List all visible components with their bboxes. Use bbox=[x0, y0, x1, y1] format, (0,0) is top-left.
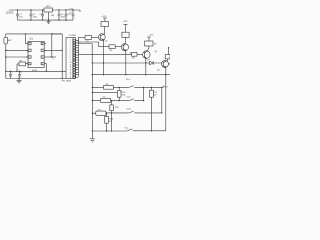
bottom rail of block bbox=[92, 130, 127, 132]
svg-text:16: 16 bbox=[70, 77, 72, 79]
svg-text:9: 9 bbox=[70, 60, 71, 62]
wire emitter Q3 down bbox=[145, 58, 147, 74]
wire IC pin2 to drop bbox=[44, 49, 62, 51]
svg-text:470u: 470u bbox=[33, 16, 37, 18]
ground G3 bbox=[90, 131, 95, 142]
wire to IC pin3 bbox=[6, 56, 28, 58]
svg-text:K1-4: K1-4 bbox=[124, 128, 129, 130]
transistor Q4 bbox=[162, 60, 169, 67]
vertical resistor R13 bbox=[106, 113, 108, 116]
svg-text:2: 2 bbox=[70, 42, 71, 44]
rail mid y63 bbox=[92, 62, 149, 64]
svg-text:R7: R7 bbox=[154, 44, 157, 46]
wire emitter Q1 down bbox=[103, 40, 105, 74]
optocoupler U3 bbox=[92, 100, 100, 102]
junction dots bottom rail bbox=[30, 19, 66, 20]
svg-text:R4: R4 bbox=[110, 50, 113, 52]
capacitor C5 bbox=[65, 10, 68, 20]
node dot terminal 1 bbox=[5, 50, 7, 52]
svg-text:13: 13 bbox=[70, 69, 72, 71]
power +12V arrow right bbox=[162, 86, 164, 88]
svg-text:11: 11 bbox=[70, 64, 72, 66]
wire ground rail bbox=[6, 78, 66, 80]
resistor R5 bbox=[122, 32, 129, 37]
svg-text:12VDC: 12VDC bbox=[6, 12, 14, 15]
svg-text:CON25: CON25 bbox=[69, 35, 77, 37]
wire collector Q1 bbox=[104, 27, 106, 34]
svg-text:10K: 10K bbox=[122, 95, 126, 97]
svg-text:+12V: +12V bbox=[122, 21, 128, 23]
svg-text:3: 3 bbox=[29, 57, 30, 59]
svg-text:12: 12 bbox=[70, 67, 72, 69]
optocoupler U4 bbox=[92, 112, 95, 114]
transistor Q3 bbox=[143, 51, 151, 59]
wire bus right of connector bbox=[78, 37, 80, 77]
node dots row1 bbox=[143, 87, 163, 88]
wire pin4 to connector bbox=[44, 64, 46, 72]
microphone MIC1 bbox=[6, 34, 62, 37]
svg-text:104: 104 bbox=[51, 15, 55, 17]
wire top rail right bbox=[53, 10, 81, 12]
vertical resistor R12 bbox=[111, 101, 113, 105]
wire A to connector bbox=[52, 33, 62, 35]
svg-text:Q3: Q3 bbox=[154, 51, 158, 53]
op-amp IC1 box bbox=[28, 41, 44, 67]
connector XS1 bbox=[66, 38, 76, 79]
svg-text:8: 8 bbox=[42, 44, 43, 46]
svg-text:3: 3 bbox=[70, 45, 71, 47]
svg-text:14: 14 bbox=[70, 72, 72, 74]
wire collector Q3 bbox=[147, 46, 149, 51]
svg-text:Q1: Q1 bbox=[105, 41, 109, 43]
node dot terminal 2 bbox=[5, 56, 7, 58]
svg-text:7812: 7812 bbox=[46, 6, 52, 8]
capacitor C1 bbox=[16, 10, 19, 20]
svg-text:2: 2 bbox=[29, 50, 30, 52]
wire bottom rail bbox=[18, 19, 74, 21]
relay coil RY1 bbox=[150, 88, 152, 91]
resistor R9 bbox=[104, 86, 114, 90]
resistor R8 right edge bbox=[168, 48, 170, 55]
svg-text:R12: R12 bbox=[115, 107, 120, 109]
connector pin numbers bbox=[70, 40, 72, 79]
svg-text:15: 15 bbox=[70, 74, 72, 76]
svg-text:1: 1 bbox=[70, 40, 71, 42]
svg-text:8: 8 bbox=[70, 57, 71, 59]
svg-text:7: 7 bbox=[70, 55, 71, 57]
svg-text:R6: R6 bbox=[132, 58, 135, 60]
wire emitter Q2 down bbox=[125, 51, 127, 75]
svg-text:XP1 DB25: XP1 DB25 bbox=[62, 80, 73, 82]
node B junction bbox=[51, 56, 53, 58]
bus +12V vertical bbox=[161, 87, 163, 113]
junction dots top rail bbox=[17, 9, 74, 10]
wire top rail left bbox=[9, 9, 44, 11]
svg-text:5: 5 bbox=[70, 50, 71, 52]
wire pin3 to node B bbox=[44, 56, 56, 58]
wire base Q3 bbox=[79, 53, 132, 55]
IC1 right pins bbox=[41, 42, 46, 65]
wire collector Q2 bbox=[125, 37, 127, 43]
wire vertical node A to node B bbox=[51, 34, 53, 57]
svg-text:7: 7 bbox=[42, 50, 43, 52]
node A on mic wire bbox=[51, 33, 53, 35]
transistor Q1 bbox=[98, 34, 105, 41]
capacitor C4 bbox=[58, 10, 61, 20]
capacitor C8 polarized bbox=[18, 71, 21, 78]
wire to IC pin2 bbox=[6, 49, 28, 51]
ground G2 bbox=[17, 79, 22, 83]
left bus of relay block bbox=[91, 63, 93, 131]
svg-text:6: 6 bbox=[42, 57, 43, 59]
capacitor C7 polarized bbox=[9, 71, 12, 78]
svg-text:K1-3: K1-3 bbox=[127, 109, 132, 111]
svg-text:4: 4 bbox=[29, 64, 30, 66]
svg-text:+12V: +12V bbox=[148, 35, 154, 37]
svg-text:12V: 12V bbox=[153, 95, 157, 97]
connector pin boxes bbox=[73, 40, 78, 78]
transistor Q2 bbox=[121, 44, 128, 51]
svg-text:+12V: +12V bbox=[101, 16, 107, 18]
svg-text:104: 104 bbox=[19, 16, 23, 18]
resistor R7 bbox=[145, 41, 153, 46]
svg-text:IC1: IC1 bbox=[29, 37, 33, 40]
svg-text:1: 1 bbox=[29, 44, 30, 46]
wire lower bus bbox=[6, 70, 66, 72]
svg-text:4: 4 bbox=[70, 47, 71, 49]
svg-text:6: 6 bbox=[70, 52, 71, 54]
svg-text:K1-2: K1-2 bbox=[127, 96, 132, 98]
wire emitter Q4 down bbox=[165, 68, 167, 75]
IC1 left pins bbox=[25, 33, 31, 65]
row3 wire bbox=[106, 112, 107, 113]
svg-text:10: 10 bbox=[70, 62, 72, 64]
svg-text:K1-1: K1-1 bbox=[126, 79, 131, 81]
svg-text:2: 2 bbox=[53, 59, 55, 61]
resistor R6 bbox=[132, 52, 138, 56]
resistor R3 bbox=[101, 22, 108, 27]
ground G1 bbox=[47, 20, 51, 24]
resistor R1 near IC bottom bbox=[19, 62, 26, 66]
resistor R4 bbox=[109, 45, 115, 49]
resistor R2 bbox=[85, 36, 92, 40]
wire base Q1 bbox=[79, 36, 86, 38]
diode D1 bbox=[150, 61, 162, 64]
capacitor C2 bbox=[30, 10, 33, 20]
svg-text:1K: 1K bbox=[109, 121, 112, 123]
capacitor C3 bbox=[41, 10, 44, 20]
bus right vertical to rail bbox=[165, 75, 167, 131]
wire bus to mid drop bbox=[79, 44, 93, 64]
vertical resistor R10 bbox=[118, 87, 120, 90]
svg-text:5: 5 bbox=[42, 64, 43, 66]
capacitor C6 bbox=[72, 10, 75, 20]
rail lower y74.7 bbox=[92, 74, 170, 76]
wire base Q2 bbox=[79, 42, 110, 47]
junction dots lower bus bbox=[10, 71, 47, 72]
wire mic bottom bbox=[5, 44, 7, 79]
bus K1-2 vertical bbox=[143, 87, 145, 100]
row1 wire bbox=[92, 86, 103, 88]
svg-text:100u: 100u bbox=[61, 16, 65, 18]
wire A drop to connector area bbox=[61, 34, 63, 79]
regulator IC4 7812 bbox=[44, 8, 53, 12]
wire mid stub bbox=[92, 91, 117, 93]
svg-text:Q4: Q4 bbox=[157, 69, 161, 71]
svg-text:MIC: MIC bbox=[8, 40, 12, 42]
wire Q4 right bbox=[169, 63, 171, 65]
